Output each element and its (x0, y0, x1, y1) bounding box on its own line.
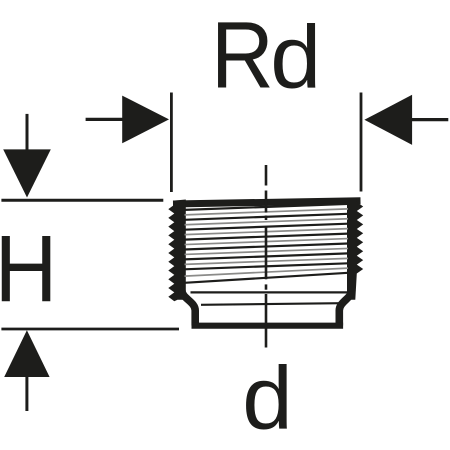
thread runout line (185, 273, 349, 283)
thread root line 3 (faint) (185, 229, 349, 235)
extension line right (360, 93, 363, 192)
svg-text:H: H (0, 217, 57, 322)
centerline dash segment 6 (265, 294, 268, 348)
dimension H down arrow stem (26, 114, 29, 150)
thread crest line 7 (184, 263, 348, 269)
fitting top edge (173, 201, 361, 204)
dimension H bottom line (1, 328, 179, 331)
fitting left wall with thread teeth (168, 200, 186, 302)
thread crest line 1 (184, 204, 348, 210)
dimension H up arrowhead (4, 330, 49, 377)
centerline dot segment 3 (265, 216, 268, 221)
thread crest line 2 (184, 214, 348, 220)
rim line (201, 303, 341, 305)
thread crest line 6 (184, 253, 348, 259)
svg-text:d: d (270, 8, 321, 107)
dimension Rd right leader line (410, 118, 448, 121)
fitting right wall with thread teeth (347, 199, 363, 300)
thread crest line 5 (184, 244, 348, 250)
centerline dash segment 2 (265, 191, 268, 213)
thread root line 5 (faint) (185, 248, 349, 254)
fitting right bottom S-curve and rim wall (339, 290, 352, 326)
dimension H down arrowhead (3, 149, 51, 197)
centerline dot segment 5 (265, 284, 268, 289)
thread root line 6 (faint) (185, 258, 349, 264)
extension line left (170, 93, 173, 193)
centerline dash segment 4 (265, 227, 268, 280)
thread root line 7 (faint) (185, 268, 349, 276)
dimension H up arrow stem (25, 377, 28, 411)
label Rd (211, 3, 321, 108)
thread root line 4 (faint) (185, 239, 349, 245)
fitting left bottom S-curve and rim wall (182, 290, 195, 326)
dimension Rd left leader line (86, 118, 124, 121)
svg-text:d: d (242, 349, 292, 448)
thread root line 2 (faint) (185, 219, 349, 225)
centerline dash segment 1 (265, 165, 268, 186)
dimension Rd right arrowhead (364, 95, 412, 145)
thread root line 1 (faint) (185, 209, 349, 215)
thread shoulder line (191, 291, 354, 293)
fitting bottom edge (192, 323, 344, 329)
svg-text:R: R (211, 3, 274, 108)
thread crest line 4 (184, 234, 348, 240)
dimension Rd left arrowhead (122, 96, 169, 144)
thread crest line 3 (184, 224, 348, 230)
dimension H top line (1, 199, 163, 202)
